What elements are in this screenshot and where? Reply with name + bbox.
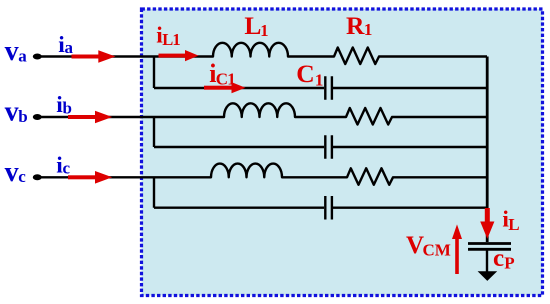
- svg-text:L1: L1: [162, 30, 180, 49]
- svg-text:v: v: [5, 157, 19, 188]
- svg-text:C1: C1: [216, 69, 235, 88]
- svg-text:a: a: [18, 46, 27, 65]
- svg-text:R: R: [346, 11, 365, 40]
- svg-text:b: b: [63, 98, 72, 117]
- svg-text:c: c: [493, 245, 504, 272]
- svg-text:c: c: [63, 159, 71, 178]
- svg-text:V: V: [406, 232, 424, 259]
- svg-text:1: 1: [364, 20, 373, 39]
- svg-text:v: v: [5, 36, 19, 67]
- svg-text:b: b: [18, 107, 27, 126]
- svg-text:1: 1: [315, 71, 324, 90]
- svg-text:a: a: [65, 38, 74, 57]
- svg-text:1: 1: [260, 21, 268, 40]
- svg-text:L: L: [244, 11, 261, 40]
- svg-text:L: L: [508, 215, 519, 234]
- svg-text:CM: CM: [423, 241, 451, 260]
- svg-text:v: v: [5, 97, 19, 128]
- svg-text:c: c: [18, 167, 26, 186]
- svg-text:P: P: [504, 254, 514, 273]
- svg-text:C: C: [296, 59, 314, 88]
